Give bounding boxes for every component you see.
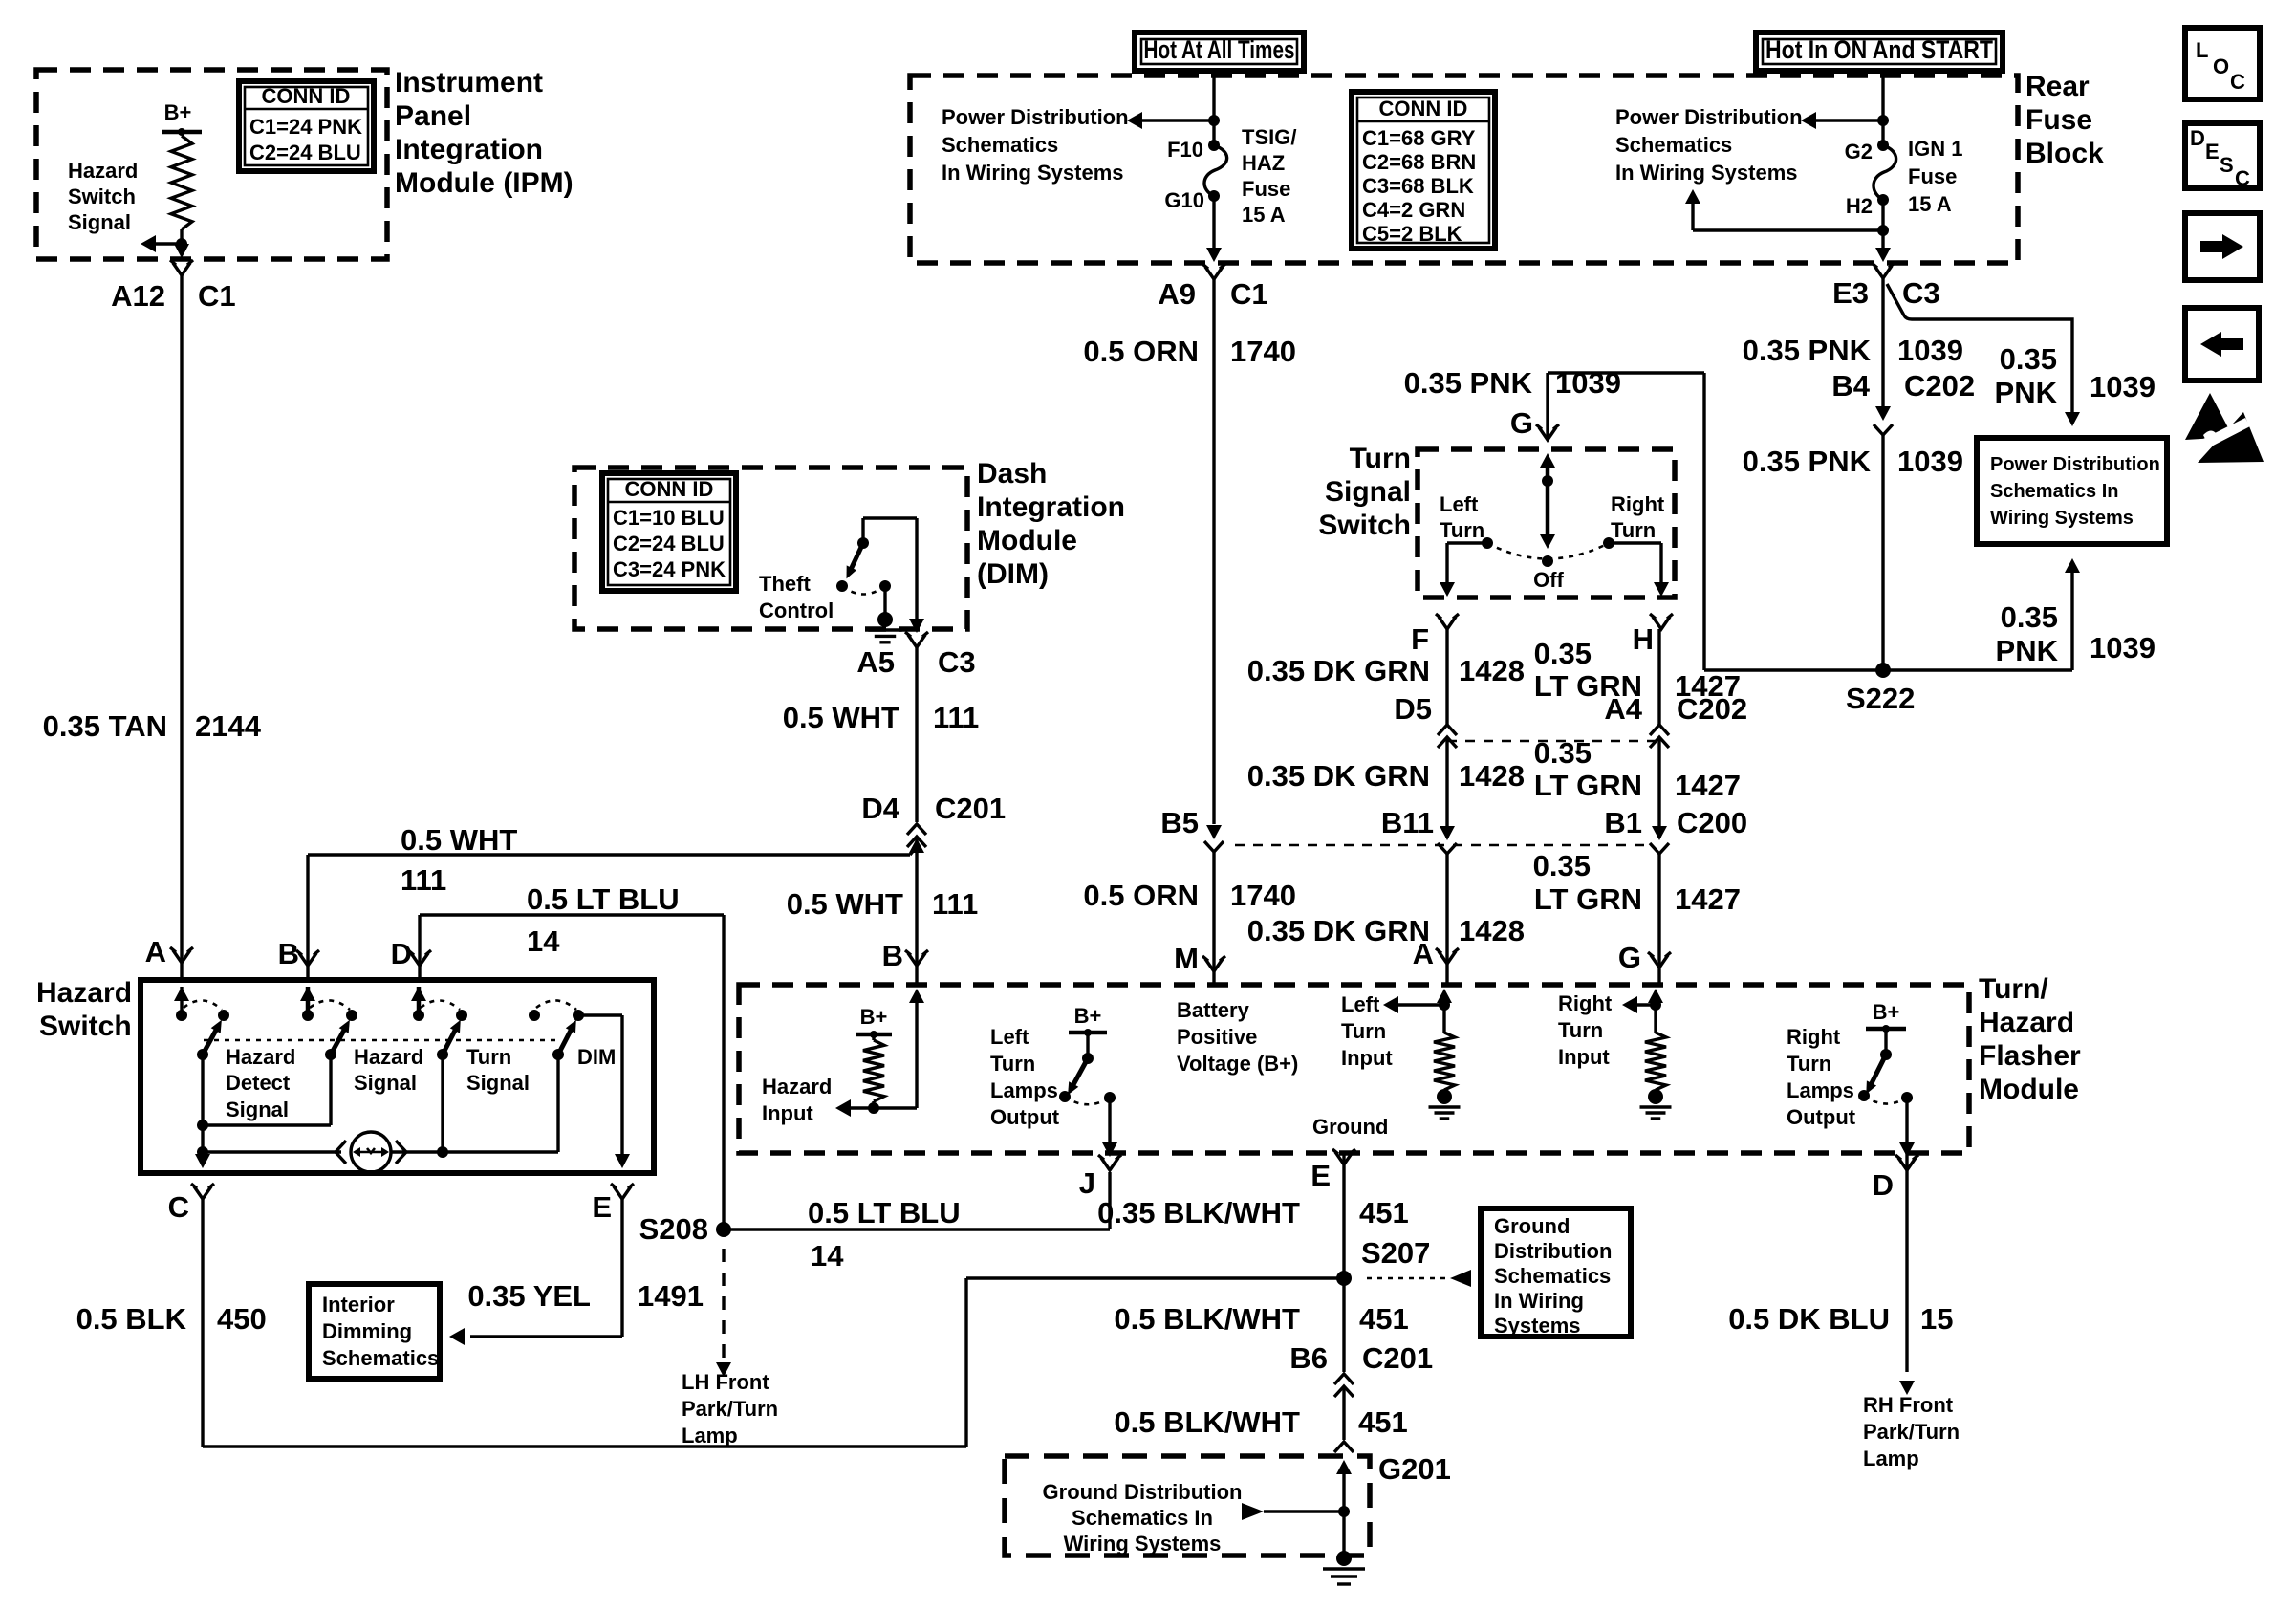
svg-text:14: 14: [811, 1239, 844, 1273]
svg-text:CONN ID: CONN ID: [1379, 97, 1468, 120]
svg-text:0.5 WHT: 0.5 WHT: [783, 701, 899, 734]
icon: LOC box: [2185, 28, 2260, 99]
connector B6 / C201: [1334, 1374, 1354, 1384]
svg-text:Signal: Signal: [68, 210, 131, 234]
left turn contact: [1482, 537, 1493, 549]
wire S222 branch left to turn signal switch G: [1704, 668, 1883, 671]
svg-text:Input: Input: [1341, 1046, 1393, 1070]
svg-text:Park/Turn: Park/Turn: [1863, 1420, 1960, 1444]
svg-text:B5: B5: [1160, 806, 1199, 839]
svg-text:0.35: 0.35: [1533, 849, 1591, 882]
svg-text:G2: G2: [1845, 140, 1873, 163]
arrow: Hazard Switch Signal: [156, 242, 182, 245]
svg-text:Right: Right: [1787, 1025, 1841, 1049]
svg-text:Fuse: Fuse: [1242, 177, 1290, 201]
svg-text:Turn: Turn: [1440, 518, 1484, 542]
svg-text:Lamps: Lamps: [990, 1078, 1058, 1102]
pole DIM contacts: [529, 1010, 540, 1021]
svg-text:Systems: Systems: [1494, 1314, 1581, 1338]
svg-text:Input: Input: [1558, 1045, 1610, 1069]
module box: Instrument Panel Integration Module (IPM): [36, 70, 387, 259]
svg-text:0.5 BLK/WHT: 0.5 BLK/WHT: [1114, 1405, 1300, 1439]
module box: Dash Integration Module (DIM): [574, 468, 967, 629]
svg-text:PNK: PNK: [1996, 634, 2059, 667]
svg-text:Schematics In: Schematics In: [1072, 1506, 1213, 1530]
svg-text:0.35 PNK: 0.35 PNK: [1743, 445, 1872, 478]
connector D (hazard switch): [411, 953, 428, 966]
svg-text:Wiring Systems: Wiring Systems: [1990, 508, 2134, 529]
svg-text:A5: A5: [856, 645, 895, 679]
wire 0.35 PNK 1039 (E3 to B4): [1881, 278, 1884, 409]
branch wire 0.35 PNK 1039 to Power Distribution box: [1887, 284, 2072, 413]
left turn input resistor: [1437, 989, 1452, 1003]
wire 0.5 WHT 111 (D4 to B): [915, 837, 918, 966]
svg-text:Block: Block: [2025, 138, 2104, 169]
wire 0.35 LT GRN 1427 (B1 to G): [1657, 854, 1660, 968]
mechanical coupling dashed line: [204, 1039, 558, 1042]
svg-text:B1: B1: [1604, 806, 1642, 839]
svg-text:0.5 WHT: 0.5 WHT: [787, 887, 903, 921]
svg-text:D: D: [1873, 1168, 1894, 1202]
table CONN ID (IPM): [239, 81, 374, 171]
wire fuse to box edge: [1212, 196, 1215, 249]
svg-text:TSIG/: TSIG/: [1242, 125, 1296, 149]
svg-text:0.35 BLK/WHT: 0.35 BLK/WHT: [1097, 1196, 1300, 1229]
svg-text:Hot In ON And START: Hot In ON And START: [1765, 35, 1993, 64]
svg-text:H: H: [1633, 622, 1654, 656]
svg-text:0.35 PNK: 0.35 PNK: [1743, 334, 1872, 367]
branch arrow up inside fuse block: [1881, 200, 1884, 249]
svg-text:C2=68 BRN: C2=68 BRN: [1362, 150, 1476, 174]
svg-text:0.5 ORN: 0.5 ORN: [1083, 879, 1199, 912]
pole A: hazard detect contacts: [180, 987, 183, 1012]
svg-text:CONN ID: CONN ID: [262, 84, 351, 108]
svg-text:Module: Module: [1979, 1074, 2079, 1105]
svg-text:0.35 YEL: 0.35 YEL: [467, 1279, 591, 1313]
pole D: turn signal contacts: [417, 987, 422, 1012]
icon: back arrow box: [2185, 308, 2259, 381]
svg-text:0.35 DK GRN: 0.35 DK GRN: [1247, 654, 1430, 687]
svg-text:0.5 DK BLU: 0.5 DK BLU: [1728, 1302, 1890, 1336]
svg-text:C1=24 PNK: C1=24 PNK: [249, 115, 362, 139]
wire from Hot At All Times: [1212, 71, 1215, 145]
wire 0.35 DK GRN 1428 (B11 to A): [1445, 854, 1448, 964]
splice S207: [1336, 1271, 1352, 1286]
connector A (hazard switch): [173, 950, 190, 963]
icon: forward arrow box: [2185, 213, 2260, 280]
connector A9 / C1: [1205, 267, 1223, 279]
svg-text:Turn/: Turn/: [1979, 973, 2048, 1005]
svg-text:0.35: 0.35: [2001, 600, 2058, 634]
svg-text:Fuse: Fuse: [2025, 104, 2092, 136]
svg-text:B11: B11: [1381, 806, 1434, 839]
connector B5: [1206, 825, 1222, 839]
svg-text:Module (IPM): Module (IPM): [395, 167, 574, 199]
svg-text:E: E: [2205, 140, 2220, 163]
svg-text:C1: C1: [198, 279, 236, 313]
svg-text:14: 14: [527, 925, 560, 958]
svg-text:PNK: PNK: [1995, 376, 2058, 409]
connector B (flasher module): [908, 953, 925, 966]
svg-text:CONN ID: CONN ID: [625, 477, 714, 501]
svg-text:0.5 WHT: 0.5 WHT: [401, 823, 517, 857]
connector E3 / C3: [1874, 266, 1892, 278]
svg-text:LT GRN: LT GRN: [1534, 882, 1642, 916]
switch common leg from G: [1540, 453, 1555, 468]
svg-text:Hot At All Times: Hot At All Times: [1144, 35, 1295, 64]
wire to A12 with arrow: [174, 244, 189, 258]
svg-text:S222: S222: [1846, 682, 1915, 715]
svg-text:Turn: Turn: [1341, 1019, 1386, 1043]
wire 0.35 DK GRN 1428 (F to D5): [1445, 629, 1448, 725]
connector B11: [1440, 826, 1455, 840]
svg-text:L: L: [2196, 38, 2208, 62]
svg-text:B: B: [882, 939, 903, 972]
svg-text:Turn: Turn: [990, 1052, 1035, 1076]
svg-text:G201: G201: [1378, 1452, 1451, 1486]
connector E (flasher module): [1342, 1153, 1345, 1164]
svg-text:Panel: Panel: [395, 100, 471, 132]
connector D4 / C201: [907, 824, 926, 835]
jog arrow from hazard switch B wire: [910, 845, 917, 855]
svg-text:C1: C1: [1230, 277, 1268, 311]
svg-text:Battery: Battery: [1177, 998, 1250, 1022]
svg-text:1491: 1491: [638, 1279, 704, 1313]
svg-text:Signal: Signal: [466, 1071, 530, 1095]
svg-text:LH Front: LH Front: [682, 1370, 769, 1394]
svg-text:0.5 BLK/WHT: 0.5 BLK/WHT: [1114, 1302, 1300, 1336]
connector A4 / C202: [1650, 725, 1669, 735]
svg-text:In Wiring: In Wiring: [1494, 1289, 1584, 1313]
svg-text:Signal: Signal: [1325, 476, 1411, 508]
svg-text:E: E: [592, 1190, 612, 1224]
wire to box edge E3: [1875, 248, 1891, 262]
svg-text:1740: 1740: [1230, 879, 1296, 912]
svg-text:111: 111: [933, 701, 979, 734]
connector C200 dashed row: [1235, 844, 1650, 847]
svg-text:B+: B+: [164, 100, 192, 124]
svg-text:D: D: [2190, 126, 2205, 150]
svg-text:Schematics In: Schematics In: [1990, 481, 2119, 502]
fuse TSIG/HAZ F10-G10: [1208, 140, 1220, 151]
svg-text:111: 111: [932, 887, 978, 921]
wire 0.5 ORN 1740 (B5 to M): [1212, 852, 1215, 971]
svg-text:B4: B4: [1831, 369, 1870, 402]
svg-text:B+: B+: [1873, 1000, 1900, 1024]
wire S222 branch right up to Power Distribution box: [1883, 668, 2072, 671]
svg-text:F: F: [1411, 622, 1429, 656]
svg-text:In Wiring Systems: In Wiring Systems: [942, 161, 1124, 185]
svg-text:15 A: 15 A: [1242, 203, 1286, 227]
connector B (hazard switch): [299, 953, 316, 966]
svg-text:Theft: Theft: [759, 572, 811, 596]
wire 0.35 LT GRN 1427 (H to A4): [1657, 629, 1660, 725]
svg-text:S207: S207: [1361, 1236, 1430, 1270]
svg-text:Power Distribution: Power Distribution: [1990, 454, 2160, 475]
svg-text:F10: F10: [1167, 138, 1203, 162]
module box: Turn Signal Switch: [1418, 449, 1675, 598]
svg-text:1039: 1039: [2090, 631, 2155, 664]
svg-text:G: G: [1510, 406, 1533, 440]
svg-text:Ground: Ground: [1312, 1115, 1388, 1139]
svg-text:B6: B6: [1289, 1341, 1328, 1375]
connector M: [1205, 959, 1223, 971]
svg-text:Lamps: Lamps: [1787, 1078, 1854, 1102]
svg-text:Flasher: Flasher: [1979, 1040, 2081, 1072]
svg-text:C2=24 BLU: C2=24 BLU: [613, 532, 725, 555]
svg-text:Right: Right: [1611, 492, 1665, 516]
svg-text:B+: B+: [860, 1005, 888, 1029]
connector E (hazard switch): [614, 1186, 631, 1199]
svg-text:LT GRN: LT GRN: [1534, 769, 1642, 802]
wire from Hot In ON And START: [1881, 71, 1884, 145]
connector A12 / C1: [173, 263, 190, 275]
wire theft control to A5: [915, 518, 918, 621]
svg-text:1740: 1740: [1230, 335, 1296, 368]
wire 0.5 LT BLU 14 (S208 to J): [724, 1228, 1110, 1230]
connector B4 / C202: [1875, 406, 1891, 421]
svg-text:2144: 2144: [195, 709, 262, 743]
svg-text:Hazard: Hazard: [354, 1045, 423, 1069]
svg-text:Hazard: Hazard: [68, 159, 138, 183]
svg-text:0.5 LT BLU: 0.5 LT BLU: [808, 1196, 961, 1229]
connector H: [1653, 617, 1670, 629]
svg-text:Schematics: Schematics: [322, 1346, 439, 1370]
svg-text:RH Front: RH Front: [1863, 1393, 1954, 1417]
svg-text:(DIM): (DIM): [977, 558, 1049, 590]
svg-text:Right: Right: [1558, 991, 1613, 1015]
svg-text:C202: C202: [1904, 369, 1975, 402]
svg-text:Turn: Turn: [466, 1045, 511, 1069]
svg-text:Hazard: Hazard: [36, 977, 132, 1009]
connector A5 / C3: [908, 635, 925, 647]
svg-text:Integration: Integration: [395, 134, 543, 165]
svg-text:C1=68 GRY: C1=68 GRY: [1362, 126, 1476, 150]
svg-text:451: 451: [1359, 1196, 1409, 1229]
connector D (flasher module): [1905, 1153, 1908, 1170]
right turn contact: [1603, 537, 1614, 549]
svg-text:J: J: [1079, 1166, 1095, 1200]
svg-text:Interior: Interior: [322, 1293, 395, 1316]
svg-text:Control: Control: [759, 598, 834, 622]
svg-text:A9: A9: [1158, 277, 1196, 311]
svg-text:C2=24 BLU: C2=24 BLU: [249, 141, 361, 164]
svg-text:0.35 PNK: 0.35 PNK: [1404, 366, 1533, 400]
svg-text:C3: C3: [1902, 276, 1940, 310]
wire 0.35 YEL 1491 (E to interior dimming): [620, 1199, 623, 1337]
svg-text:Integration: Integration: [977, 491, 1125, 523]
svg-text:O: O: [2213, 54, 2229, 78]
svg-text:Fuse: Fuse: [1908, 164, 1957, 188]
svg-text:Wiring Systems: Wiring Systems: [1064, 1532, 1222, 1556]
svg-text:0.35 DK GRN: 0.35 DK GRN: [1247, 759, 1430, 793]
svg-text:Dash: Dash: [977, 458, 1047, 490]
svg-text:1039: 1039: [1897, 445, 1963, 478]
svg-text:E: E: [1310, 1159, 1331, 1192]
connector B1 / C200: [1652, 826, 1667, 840]
svg-text:Hazard: Hazard: [1979, 1007, 2074, 1038]
connector D5: [1438, 725, 1457, 735]
svg-text:0.5 BLK: 0.5 BLK: [76, 1302, 187, 1336]
svg-text:E3: E3: [1832, 276, 1869, 310]
svg-text:0.35 TAN: 0.35 TAN: [43, 709, 167, 743]
svg-text:C: C: [2230, 70, 2245, 94]
header: Hot At All Times: [1135, 33, 1304, 71]
svg-text:1428: 1428: [1459, 759, 1525, 793]
svg-text:1427: 1427: [1675, 769, 1741, 802]
wire 0.5 BLK 450 (C to ground run): [201, 1199, 204, 1447]
svg-text:Power Distribution: Power Distribution: [942, 105, 1129, 129]
connector J: [1101, 1158, 1118, 1170]
svg-text:Detect: Detect: [226, 1071, 291, 1095]
pole B: hazard signal contacts: [306, 987, 311, 1012]
svg-text:Hazard: Hazard: [226, 1045, 295, 1069]
svg-text:Left: Left: [1341, 992, 1380, 1016]
wire 0.35 TAN 2144 down to hazard switch A: [180, 275, 183, 963]
svg-text:Instrument: Instrument: [395, 67, 543, 98]
svg-text:1428: 1428: [1459, 914, 1525, 947]
module box: Hazard Switch: [141, 980, 654, 1173]
svg-text:Switch: Switch: [1318, 510, 1411, 541]
svg-text:Switch: Switch: [39, 1011, 132, 1042]
svg-text:HAZ: HAZ: [1242, 151, 1285, 175]
svg-text:Left: Left: [990, 1025, 1029, 1049]
svg-text:A: A: [1413, 937, 1434, 970]
svg-text:C5=2 BLK: C5=2 BLK: [1362, 222, 1462, 246]
ground G201: [1005, 1456, 1370, 1556]
svg-text:Rear: Rear: [2025, 71, 2090, 102]
svg-text:Schematics: Schematics: [1494, 1264, 1611, 1288]
svg-text:Output: Output: [990, 1105, 1060, 1129]
dashed wire S208 to LH front park/turn lamp: [722, 1249, 725, 1358]
svg-text:Turn: Turn: [1787, 1052, 1831, 1076]
module box: Turn/Hazard Flasher Module: [739, 985, 1969, 1153]
svg-text:A: A: [145, 935, 166, 968]
svg-text:G: G: [1618, 941, 1641, 974]
svg-text:D: D: [391, 937, 412, 970]
wiper dashed arc: [1487, 543, 1609, 559]
svg-text:Ground Distribution: Ground Distribution: [1043, 1480, 1243, 1504]
svg-text:Turn: Turn: [1350, 443, 1411, 474]
svg-text:451: 451: [1358, 1405, 1408, 1439]
table CONN ID (DIM): [602, 473, 736, 591]
svg-text:C200: C200: [1677, 806, 1747, 839]
svg-text:451: 451: [1359, 1302, 1409, 1336]
svg-text:Schematics: Schematics: [1615, 133, 1732, 157]
wire down to G connector: [1546, 373, 1549, 440]
svg-text:Left: Left: [1440, 492, 1479, 516]
svg-text:Distribution: Distribution: [1494, 1239, 1612, 1263]
svg-text:Power Distribution: Power Distribution: [1615, 105, 1803, 129]
svg-text:C201: C201: [1362, 1341, 1433, 1375]
svg-text:Lamp: Lamp: [682, 1424, 738, 1447]
wire 0.5 BLK/WHT 451 (S207 to B6): [1342, 1278, 1345, 1372]
wire 0.35 DK GRN 1428 (D5 to B11): [1445, 737, 1448, 838]
svg-text:C: C: [2235, 166, 2250, 190]
illumination lamp: [203, 1150, 341, 1153]
svg-text:Schematics: Schematics: [942, 133, 1058, 157]
svg-text:C4=2 GRN: C4=2 GRN: [1362, 198, 1465, 222]
module box: Rear Fuse Block: [910, 76, 2018, 263]
svg-text:0.35: 0.35: [2000, 342, 2057, 376]
wire 0.5 WHT 111 (hazard switch B to D4): [308, 853, 910, 856]
svg-text:Lamp: Lamp: [1863, 1447, 1919, 1470]
svg-text:C3=24 PNK: C3=24 PNK: [613, 557, 726, 581]
connector C: [194, 1186, 211, 1199]
svg-text:Signal: Signal: [354, 1071, 417, 1095]
svg-text:A4: A4: [1604, 692, 1642, 726]
hazard input resistor: [909, 989, 924, 1003]
box: Power Distribution Schematics In Wiring Systems: [1977, 438, 2167, 544]
svg-text:Hazard: Hazard: [762, 1075, 832, 1099]
dashed arrow to ground distribution schematics: [1367, 1277, 1445, 1280]
connector F: [1439, 617, 1456, 629]
wire 0.5 ORN 1740: [1212, 279, 1215, 824]
svg-text:G10: G10: [1164, 188, 1204, 212]
svg-text:1039: 1039: [1555, 366, 1621, 400]
svg-text:450: 450: [217, 1302, 267, 1336]
svg-text:0.35: 0.35: [1534, 736, 1592, 770]
svg-text:0.35: 0.35: [1534, 637, 1592, 670]
solid ground run from hazard switch C: [966, 1276, 1344, 1279]
connector A (flasher module): [1439, 951, 1456, 964]
svg-text:Park/Turn: Park/Turn: [682, 1397, 778, 1421]
svg-text:C201: C201: [935, 792, 1006, 825]
svg-text:111: 111: [401, 863, 446, 897]
svg-text:Turn: Turn: [1558, 1018, 1603, 1042]
table CONN ID (rear fuse block): [1352, 92, 1495, 249]
icon: DESC box: [2185, 123, 2260, 188]
svg-text:H2: H2: [1846, 194, 1873, 218]
fuse IGN 1 G2-H2: [1877, 140, 1889, 151]
svg-text:Output: Output: [1787, 1105, 1856, 1129]
svg-text:1039: 1039: [2090, 370, 2155, 403]
svg-text:1039: 1039: [1897, 334, 1963, 367]
svg-text:B: B: [278, 937, 299, 970]
resistor (IPM hazard switch pull-up): [171, 136, 192, 229]
svg-text:B+: B+: [1074, 1004, 1102, 1028]
svg-text:Positive: Positive: [1177, 1025, 1257, 1049]
connector G (turn signal switch): [1539, 427, 1556, 440]
header: Hot In ON And START: [1756, 33, 2003, 71]
right turn input resistor: [1648, 989, 1663, 1003]
svg-text:C1=10 BLU: C1=10 BLU: [613, 506, 725, 530]
svg-text:DIM: DIM: [577, 1045, 616, 1069]
wire 0.5 DK BLU 15 (D to RH front park/turn lamp): [1905, 1170, 1908, 1372]
wire 0.35 PNK 1039 (B4 to S222): [1881, 435, 1884, 670]
svg-text:Off: Off: [1533, 568, 1564, 592]
svg-text:Ground: Ground: [1494, 1214, 1570, 1238]
icon: ESD warning triangles: [2185, 393, 2233, 440]
svg-text:0.5 ORN: 0.5 ORN: [1083, 335, 1199, 368]
svg-text:S: S: [2220, 153, 2234, 177]
wire 0.5 BLK/WHT 451 (B6 to G201): [1342, 1386, 1345, 1440]
box: Interior Dimming Schematics: [309, 1284, 440, 1379]
svg-text:Module: Module: [977, 525, 1077, 556]
svg-text:Turn: Turn: [1611, 518, 1656, 542]
svg-text:M: M: [1174, 942, 1199, 975]
svg-text:Input: Input: [762, 1101, 813, 1125]
svg-text:Voltage (B+): Voltage (B+): [1177, 1052, 1298, 1076]
svg-text:D5: D5: [1394, 692, 1432, 726]
wire resistor to junction: [180, 229, 183, 250]
svg-text:0.5 LT BLU: 0.5 LT BLU: [527, 882, 680, 916]
svg-text:In Wiring Systems: In Wiring Systems: [1615, 161, 1798, 185]
svg-text:15 A: 15 A: [1908, 192, 1952, 216]
connector G (flasher module): [1651, 955, 1668, 968]
wire 0.5 LT BLU 14 (hazard switch D to S208): [420, 913, 724, 916]
svg-text:C3: C3: [938, 645, 976, 679]
